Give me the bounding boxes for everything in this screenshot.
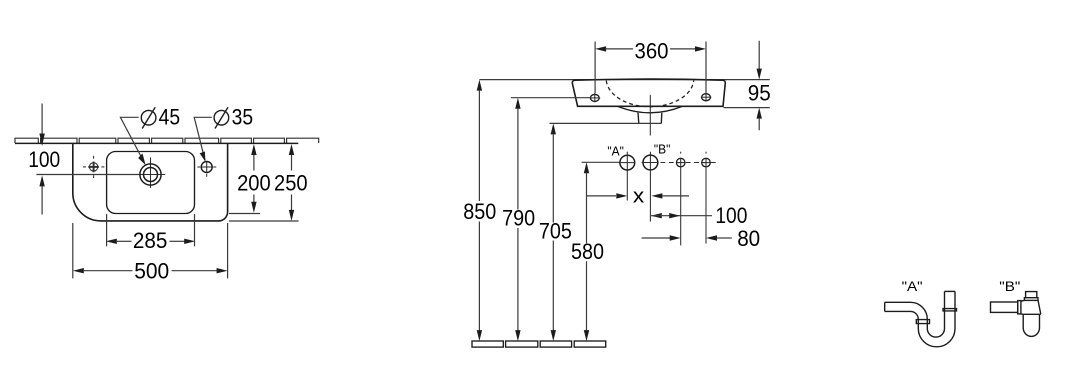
- tap hole D45: [140, 164, 161, 185]
- dimension 850: [463, 80, 496, 342]
- svg-text:"B": "B": [999, 278, 1020, 294]
- dimension 200: [229, 144, 271, 214]
- dimension 100 (wall to tap centerline): [28, 104, 60, 215]
- LEFT VIEW (top view): [15, 104, 319, 284]
- svg-text:200: 200: [237, 171, 271, 196]
- basin body front view: [572, 79, 725, 106]
- leader D45: [120, 117, 144, 162]
- wall tile row: [15, 138, 319, 143]
- dimension 285: [106, 214, 195, 253]
- RIGHT TRAPS: [885, 278, 1041, 347]
- svg-text:500: 500: [134, 258, 169, 283]
- dimension 500: [73, 223, 228, 283]
- dimension 95: [724, 41, 771, 131]
- svg-text:705: 705: [539, 218, 572, 243]
- svg-text:100: 100: [715, 203, 747, 228]
- basin outer outline: [73, 143, 228, 221]
- hole D35: [201, 162, 212, 173]
- svg-text:250: 250: [274, 171, 308, 196]
- floor tile row: [472, 341, 606, 347]
- svg-text:285: 285: [133, 228, 168, 253]
- dimension 360: [595, 38, 706, 93]
- svg-text:35: 35: [232, 104, 254, 129]
- drain hole 1: [676, 152, 685, 246]
- bowl underside bulge: [618, 106, 682, 112]
- trap bottom reference line (705 target): [550, 122, 662, 124]
- hole A: [620, 152, 636, 201]
- svg-text:"A": "A": [607, 144, 624, 158]
- dimension 100 (drain): [651, 203, 748, 228]
- svg-text:580: 580: [571, 239, 604, 264]
- drain trap below basin: [637, 113, 640, 124]
- hole B: [642, 152, 659, 222]
- svg-text:"A": "A": [902, 278, 923, 294]
- mounting hole right: [701, 92, 712, 102]
- svg-text:80: 80: [737, 226, 760, 251]
- label D45: [141, 104, 180, 129]
- svg-text:"B": "B": [654, 143, 671, 157]
- trap B (bottle trap): [991, 292, 1041, 337]
- leader D35: [194, 117, 212, 160]
- bowl dashed arc: [606, 81, 693, 107]
- mounting hole left: [590, 93, 601, 103]
- wall face line: [15, 142, 298, 144]
- dashed line through drain holes: [661, 162, 719, 164]
- trap A (P-trap): [885, 291, 957, 346]
- basin inner bowl: [107, 152, 195, 214]
- svg-text:95: 95: [748, 80, 771, 105]
- label D35: [214, 104, 253, 129]
- centerline: [649, 95, 651, 136]
- svg-text:360: 360: [635, 38, 669, 63]
- dimension 580: [571, 162, 604, 341]
- svg-text:100: 100: [28, 147, 60, 172]
- dimension 705: [539, 123, 572, 341]
- drain hole 2: [702, 152, 711, 244]
- svg-text:790: 790: [502, 206, 535, 231]
- dimension 250: [229, 144, 308, 221]
- top edge reference line (850 target): [479, 79, 769, 81]
- svg-text:x: x: [633, 185, 645, 208]
- dimension 80 (drain): [642, 226, 761, 251]
- small centerline cross symbol: [83, 156, 104, 178]
- dimension X: [587, 185, 689, 208]
- svg-text:850: 850: [463, 199, 496, 224]
- dimension 790: [502, 98, 535, 341]
- svg-text:45: 45: [159, 104, 181, 129]
- mounting holes reference line (790 target): [511, 97, 590, 99]
- centerline through tap hole (100 reference line): [36, 174, 139, 176]
- MIDDLE VIEW (front view): [463, 38, 771, 347]
- installation holes row: [582, 161, 620, 163]
